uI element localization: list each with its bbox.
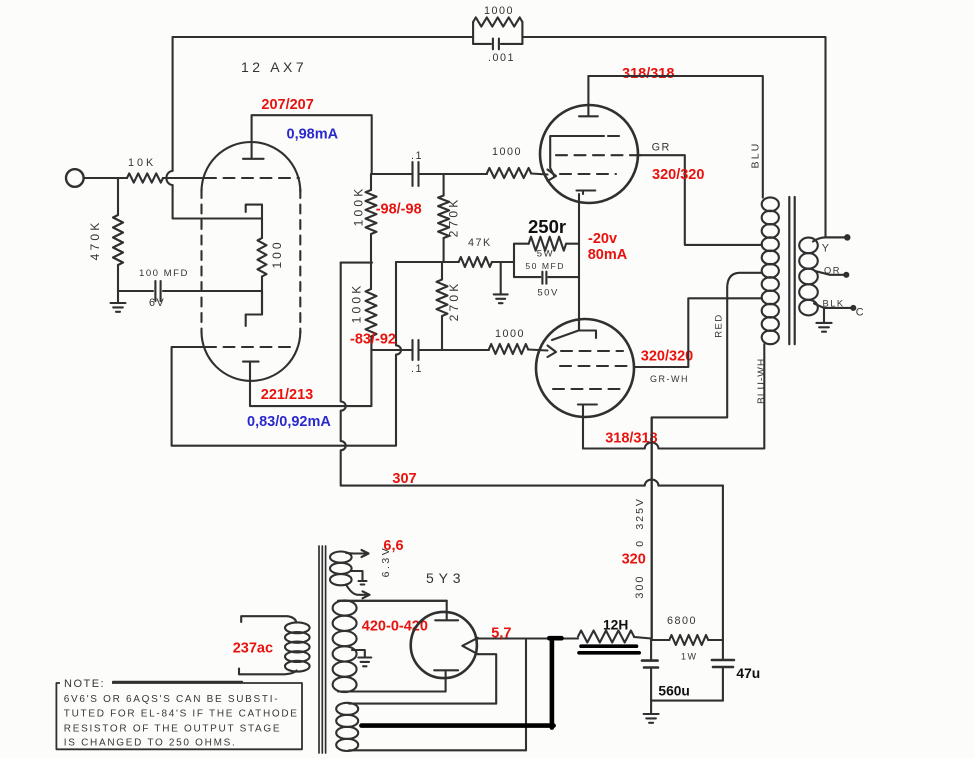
svg-text:1000: 1000: [495, 328, 525, 340]
label 50 MFD: [525, 261, 565, 271]
label 1000 (lower grid stopper): [495, 328, 525, 340]
label 47K: [468, 237, 492, 249]
svg-text:.1: .1: [411, 150, 423, 162]
svg-text:100K: 100K: [350, 283, 364, 324]
svg-text:100: 100: [270, 239, 284, 268]
capacitor 47u (preamp filter): [712, 486, 734, 701]
label 47u (bold): [736, 666, 760, 681]
svg-text:420-0-420: 420-0-420: [362, 619, 428, 635]
power transformer core: [319, 546, 326, 753]
resistor 1000 (grid stopper lower): [442, 344, 556, 357]
svg-text:318/318: 318/318: [622, 66, 674, 82]
beam/g3 electrode V2: [550, 136, 623, 177]
label 100K (upper): [352, 186, 366, 227]
svg-text:-20v: -20v: [588, 231, 617, 247]
resistor 1000 (grid stopper upper): [444, 168, 556, 181]
note box frame: [56, 673, 302, 749]
resistor 470K (input grid leak): [113, 178, 123, 303]
plate V2 (bar+lead): [579, 76, 598, 116]
svg-text:470K: 470K: [88, 220, 102, 261]
label 80mA (red): [588, 247, 628, 263]
label Y: [822, 243, 831, 255]
svg-text:RED: RED: [714, 313, 725, 338]
resistor 100 (shared cathode): [258, 238, 267, 277]
wire B+ bus 325V: [651, 417, 653, 640]
label 320/320 (red screen V2 voltage): [652, 167, 704, 183]
svg-text:GR-WH: GR-WH: [650, 374, 689, 384]
svg-text:5Y3: 5Y3: [426, 570, 465, 586]
resistor 100K (V1b plate load): [366, 263, 377, 337]
label -98/-98 (red): [376, 202, 422, 218]
svg-text:6V: 6V: [149, 297, 165, 309]
HV center tap to ground: [352, 650, 365, 658]
note box title NOTE:: [64, 678, 105, 690]
capacitor .1 (upper coupling): [372, 162, 444, 186]
svg-text:250r: 250r: [528, 216, 566, 237]
label 250r (bold): [528, 216, 566, 237]
label BLK: [823, 299, 845, 309]
beam/g3 V3 (dashed): [553, 388, 623, 390]
capacitor 560u (reservoir): [642, 640, 658, 701]
wire screen V2 to UL tap (GR): [637, 155, 762, 245]
label 10K: [128, 157, 156, 169]
svg-text:1W: 1W: [681, 652, 698, 662]
svg-text:0: 0: [634, 539, 646, 546]
svg-text:270K: 270K: [447, 281, 461, 322]
svg-text:.1: .1: [411, 363, 423, 375]
svg-text:NOTE:: NOTE:: [64, 678, 105, 690]
plate 2 of 5Y3: [434, 670, 458, 691]
label 6.3V: [380, 546, 392, 578]
label 420-0-420 (red): [362, 619, 428, 635]
output transformer core: [789, 197, 794, 344]
svg-text:6800: 6800: [667, 615, 697, 627]
power transformer 6.3V winding: [330, 550, 370, 598]
svg-text:-83/-92: -83/-92: [350, 332, 396, 348]
label 6V: [149, 297, 165, 309]
label 560u (bold): [658, 684, 689, 699]
label 300: [634, 574, 646, 598]
label BLU-WH: [757, 358, 768, 404]
tube V3 EL84 (lower, circle): [536, 319, 634, 417]
wire 5Y3 plate1 to HV top: [338, 600, 447, 602]
heater center tap: [351, 571, 367, 585]
label 207/207 (red plate V1a voltage): [261, 97, 313, 113]
svg-text:Y: Y: [822, 243, 831, 255]
wire paraphase node: [396, 261, 459, 263]
wire cathode junction: [261, 277, 263, 315]
input jack J1: [66, 169, 84, 187]
resistor 6800 1W (B+ dropper): [651, 635, 723, 645]
svg-text:320/320: 320/320: [652, 167, 704, 183]
svg-text:C: C: [856, 307, 865, 319]
svg-text:5W: 5W: [537, 248, 554, 259]
label -83/-92 (red): [350, 332, 396, 348]
svg-text:207/207: 207/207: [261, 97, 313, 113]
screen g2 V2 (dashed): [556, 154, 644, 156]
annotation thick trace (B+ path marker): [361, 638, 561, 727]
wire filament to 5V winding: [478, 639, 526, 751]
svg-text:OR: OR: [824, 266, 841, 276]
plate V1b (bar + lead): [243, 336, 371, 406]
grid g2 of V1b (dashed): [205, 346, 296, 348]
label 50V: [537, 288, 558, 299]
wire B+ riser 307 (hops plate and grid wires): [341, 263, 723, 486]
label C: [856, 307, 865, 319]
cathode V1a (hook): [246, 205, 262, 238]
label 1000 (feedback resistor value): [484, 5, 514, 17]
choke 12H: [478, 631, 651, 653]
svg-text:0,98mA: 0,98mA: [287, 127, 339, 143]
wire screen V3 to UL tap (GR-WH): [634, 298, 762, 367]
label 270K (upper): [447, 197, 461, 238]
wire cathodes bus: [578, 194, 580, 330]
label 12H (bold): [603, 618, 628, 633]
svg-text:300: 300: [634, 574, 646, 598]
wire input to grid: [84, 177, 204, 179]
resistor 47K (paraphase tail): [459, 257, 492, 267]
capacitor .1 (lower coupling): [371, 340, 442, 360]
label 1000 (upper grid stopper): [492, 146, 522, 158]
ground (paraphase/cathode network): [494, 294, 508, 303]
label 0 (winding tap): [634, 539, 646, 546]
resistor 10K (grid stopper): [127, 173, 163, 182]
label 0,83/0,92mA (blue cathode current): [247, 414, 331, 430]
svg-text:6,6: 6,6: [383, 538, 403, 554]
terminal Y (secondary top): [813, 235, 850, 241]
power transformer 5V winding: [336, 703, 526, 751]
wire feedback top run (NFB from output transformer secondary): [173, 37, 826, 237]
resistor R-FB 1000 (feedback): [473, 17, 522, 44]
label OR: [824, 266, 841, 276]
svg-text:10K: 10K: [128, 157, 156, 169]
output transformer primary winding: [762, 197, 779, 344]
svg-text:.001: .001: [488, 52, 515, 64]
svg-text:0,83/0,92mA: 0,83/0,92mA: [247, 414, 331, 430]
svg-text:325V: 325V: [634, 497, 646, 530]
label 100 MFD: [139, 268, 189, 279]
label .1 (lower): [411, 363, 423, 375]
terminal OR (secondary tap): [815, 271, 848, 277]
svg-text:GR: GR: [652, 142, 671, 154]
svg-text:237ac: 237ac: [233, 641, 273, 657]
wire plate V2 to OPT (BLU): [588, 76, 762, 198]
ground (input): [111, 303, 126, 312]
label 100: [270, 239, 284, 268]
label 5W: [537, 248, 554, 259]
svg-text:221/213: 221/213: [261, 387, 313, 403]
label 1W: [681, 652, 698, 662]
resistor 270K (lower grid leak): [437, 262, 448, 350]
svg-text:47u: 47u: [736, 666, 760, 681]
svg-text:270K: 270K: [447, 197, 461, 238]
capacitor 100MFD 6V (cathode bypass): [118, 281, 262, 301]
wire NFB riser to cathode (hops grid wire): [166, 37, 262, 219]
svg-text:BLK: BLK: [823, 299, 845, 309]
label 307 (red B+ voltage): [392, 471, 416, 487]
svg-text:80mA: 80mA: [588, 247, 628, 263]
ground (power supply): [644, 714, 659, 723]
grid g1 of V1a (dashed): [205, 177, 299, 179]
svg-text:50 MFD: 50 MFD: [525, 261, 565, 271]
svg-text:50V: 50V: [537, 288, 558, 299]
svg-text:-98/-98: -98/-98: [376, 202, 422, 218]
note box text: [64, 694, 299, 749]
wire 47K to ground/node: [492, 262, 514, 294]
wire B+ tap to plate loads: [341, 262, 372, 264]
label 6800: [667, 615, 697, 627]
label RED: [714, 313, 725, 338]
svg-text:47K: 47K: [468, 237, 492, 249]
capacitor 50MFD 50V (cathode bypass): [514, 262, 579, 284]
label 6,6 (red): [383, 538, 403, 554]
svg-text:BLU: BLU: [750, 141, 762, 168]
plate V1a (bar + lead to node A): [243, 115, 372, 174]
label 100K (lower): [350, 283, 364, 324]
resistor 100K (V1a plate load): [366, 174, 377, 263]
label 5Y3: [426, 570, 465, 586]
resistor 250r 5W (cathode bias): [514, 237, 579, 262]
label GR: [652, 142, 671, 154]
svg-text:320: 320: [622, 552, 646, 568]
label .1 (upper): [411, 150, 423, 162]
wire center tap RED to B+: [652, 273, 762, 640]
label 0,98mA (blue): [287, 127, 339, 143]
label 237ac (red): [233, 641, 273, 657]
cathode V3 (hook): [552, 319, 596, 340]
resistor 270K (upper grid leak): [438, 174, 449, 262]
svg-text:5,7: 5,7: [491, 626, 511, 642]
wire plate V3 to OPT (BLU-WH, hops B+ feed): [583, 344, 764, 449]
label 320/320 (red screen V3 voltage): [641, 349, 693, 365]
wire NFB pickup at Y: [826, 236, 847, 238]
svg-text:TUTED FOR EL-84'S IF THE CATHO: TUTED FOR EL-84'S IF THE CATHODE: [64, 709, 299, 720]
plate 1 of 5Y3: [435, 601, 458, 621]
svg-text:1000: 1000: [484, 5, 514, 17]
svg-text:12H: 12H: [603, 618, 628, 633]
grid g1 V2 (dashed): [560, 173, 616, 175]
svg-text:6V6'S OR 6AQS'S CAN BE SUBSTI-: 6V6'S OR 6AQS'S CAN BE SUBSTI-: [64, 694, 279, 705]
svg-text:1000: 1000: [492, 146, 522, 158]
ground (HV center tap): [358, 658, 371, 667]
svg-text:307: 307: [392, 471, 416, 487]
label GR-WH: [650, 374, 689, 384]
power transformer primary 237ac: [239, 616, 310, 674]
label 470K: [88, 220, 102, 261]
capacitor C-FB .001 (feedback): [473, 39, 522, 50]
svg-text:100K: 100K: [352, 186, 366, 227]
label 270K (lower): [447, 281, 461, 322]
label .001 (feedback cap value): [488, 52, 515, 64]
tube V2 EL84 (upper, circle): [540, 105, 638, 203]
terminal BLK (secondary bottom): [814, 304, 855, 310]
label 320 (red): [622, 552, 646, 568]
wire filter bottom: [651, 701, 723, 714]
output transformer secondary winding: [799, 238, 818, 316]
screen g2 V3 (dashed): [560, 365, 633, 367]
label -20v (red): [588, 231, 617, 247]
svg-text:12 AX7: 12 AX7: [241, 59, 307, 75]
tube envelope V1 12AX7 (stadium, dashed sides): [202, 142, 301, 381]
svg-text:100 MFD: 100 MFD: [139, 268, 189, 279]
label BLU: [750, 141, 762, 168]
label 5,7 (red): [491, 626, 511, 642]
tube V4 5Y3 (circle): [411, 612, 477, 678]
svg-text:318/318: 318/318: [605, 431, 657, 447]
label 318/318 (red plate V3 voltage): [605, 431, 657, 447]
svg-text:BLU-WH: BLU-WH: [757, 358, 768, 404]
label 12 AX7: [241, 59, 307, 75]
label 318/318 (red plate V2 voltage): [622, 66, 674, 82]
ground (speaker common): [816, 308, 831, 332]
power transformer HV winding 420-0-420: [333, 600, 447, 692]
svg-text:RESISTOR OF THE OUTPUT STAGE: RESISTOR OF THE OUTPUT STAGE: [64, 723, 281, 734]
cathode V1b (hook): [246, 291, 262, 326]
svg-text:IS CHANGED TO 250 OHMS.: IS CHANGED TO 250 OHMS.: [64, 738, 237, 749]
plate V3 (bar+lead): [578, 405, 597, 449]
svg-text:560u: 560u: [658, 684, 689, 699]
label 325V: [634, 497, 646, 530]
cathode V2 (bar+lead): [577, 191, 596, 195]
wire grid V1b from paraphase node: [172, 262, 401, 446]
svg-text:320/320: 320/320: [641, 349, 693, 365]
grid g1 V3 (dashed): [561, 350, 623, 352]
label 221/213 (red plate V1b voltage): [261, 387, 313, 403]
filament of 5Y3: [462, 638, 478, 654]
